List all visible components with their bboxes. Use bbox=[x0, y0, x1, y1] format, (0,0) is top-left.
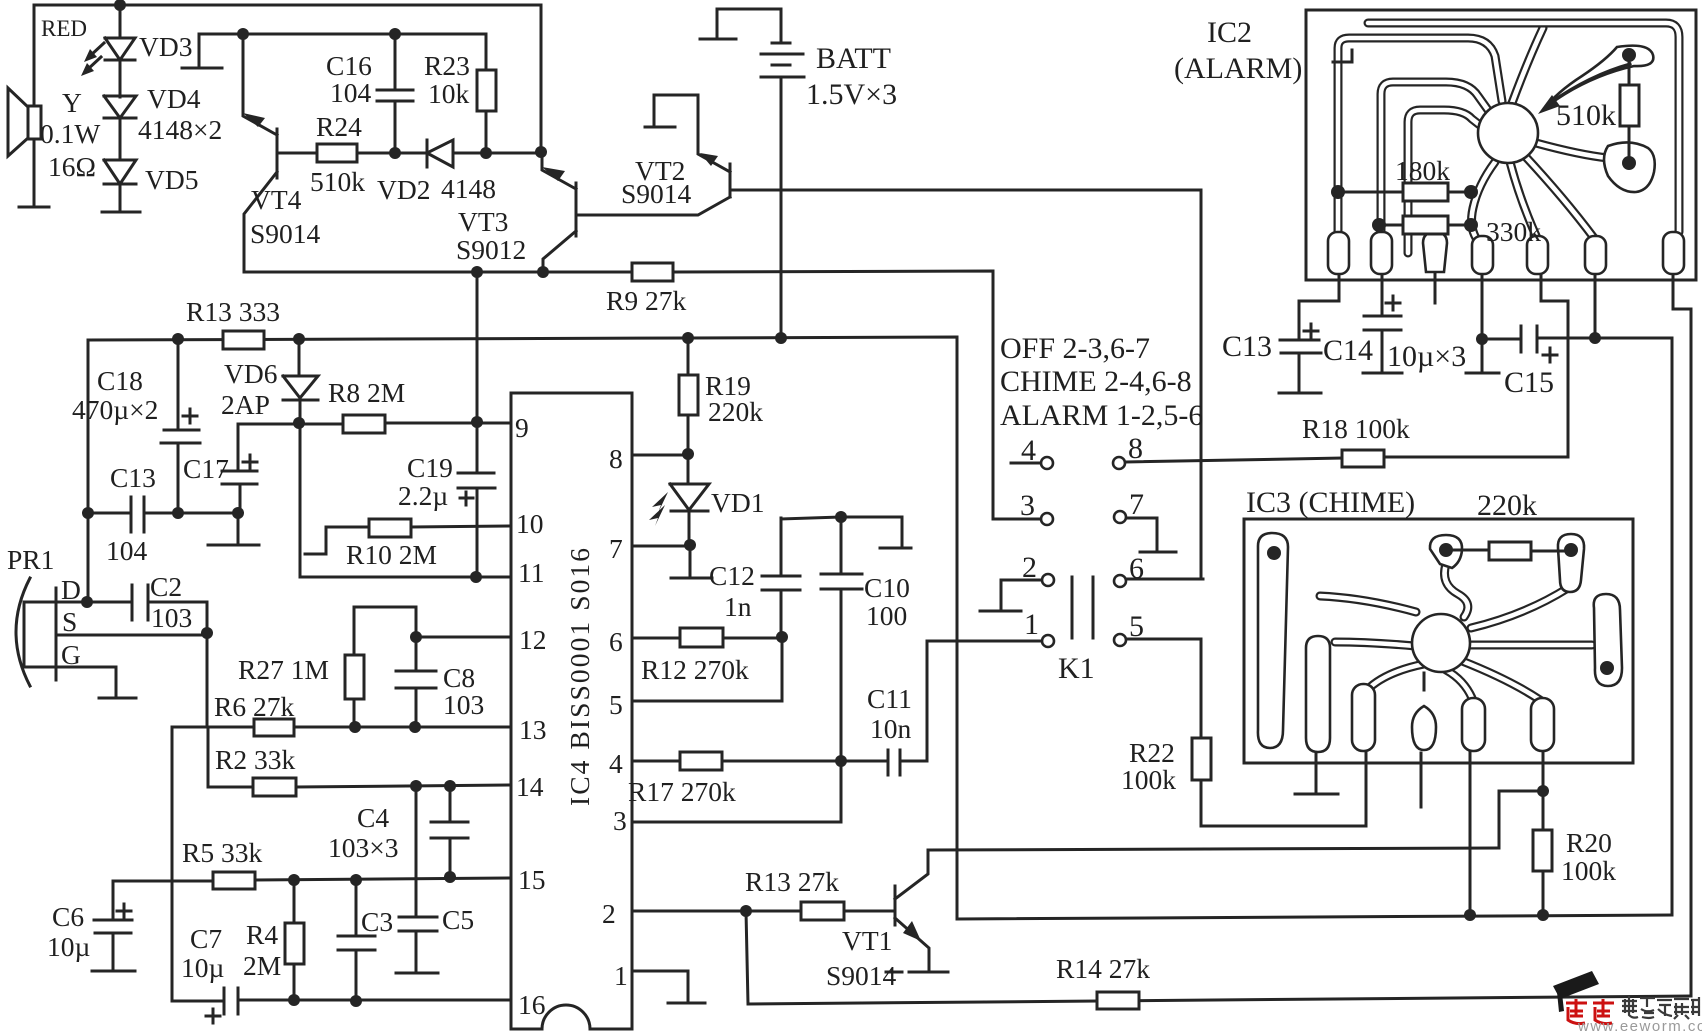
svg-text:7: 7 bbox=[609, 533, 623, 564]
svg-text:C11: C11 bbox=[867, 683, 912, 714]
IC2 box bbox=[1306, 10, 1696, 280]
node BATT bottom bbox=[775, 332, 787, 344]
svg-text:7: 7 bbox=[1129, 488, 1144, 521]
svg-text:1: 1 bbox=[614, 960, 628, 991]
wire bottom rail y1001 bbox=[1097, 996, 1691, 1001]
wire left loop x172 bbox=[171, 727, 174, 1001]
wire pin6 row bbox=[632, 637, 782, 640]
IC2 pad3 bell bbox=[1423, 232, 1447, 272]
wire pin10 row R10 bbox=[305, 526, 511, 554]
svg-text:OFF 2-3,6-7: OFF 2-3,6-7 bbox=[1000, 332, 1150, 365]
svg-text:15: 15 bbox=[518, 864, 546, 895]
svg-text:330k: 330k bbox=[1486, 216, 1541, 247]
node C3 bottom bbox=[350, 995, 362, 1007]
svg-text:2.2µ: 2.2µ bbox=[398, 480, 448, 511]
wire pin15 row bbox=[113, 878, 511, 881]
wire R23 bottom lead bbox=[485, 111, 488, 152]
IC2 bond wire sliver with arrow to chip bbox=[1543, 46, 1653, 110]
transistor VT2 S9014 bbox=[654, 95, 1201, 579]
svg-text:103×3: 103×3 bbox=[328, 832, 399, 863]
resistor R24 510k bbox=[317, 144, 357, 162]
svg-text:D: D bbox=[61, 574, 81, 605]
LED VD1 bbox=[649, 454, 709, 545]
svg-text:8: 8 bbox=[609, 443, 623, 474]
wire R18 right to IC2 pad5 bbox=[1384, 272, 1568, 457]
svg-text:4: 4 bbox=[1021, 434, 1036, 467]
contact 7 bbox=[1114, 511, 1126, 523]
svg-text:R2 33k: R2 33k bbox=[215, 744, 295, 775]
node C13 left bbox=[82, 507, 94, 519]
node C15 left bbox=[1476, 333, 1488, 345]
node pin2 bbox=[740, 905, 752, 917]
node C5 top bbox=[410, 780, 422, 792]
svg-text:R20: R20 bbox=[1566, 827, 1612, 858]
IC2 pad1 bbox=[1328, 232, 1349, 274]
svg-text:(ALARM): (ALARM) bbox=[1174, 52, 1302, 85]
stub VT1 emitter bbox=[886, 971, 948, 974]
resistor R4 2M bbox=[293, 880, 296, 1000]
svg-text:CHIME 2-4,6-8: CHIME 2-4,6-8 bbox=[1000, 365, 1192, 398]
svg-text:R24: R24 bbox=[316, 111, 362, 142]
wire IC2 pad7 to right edge vertical bbox=[1673, 272, 1691, 996]
svg-text:S9014: S9014 bbox=[250, 218, 321, 249]
IC3 box bbox=[1244, 519, 1633, 763]
wire left vertical x88 bbox=[87, 340, 90, 602]
node C17 bottom bbox=[232, 507, 244, 519]
node R4 bottom bbox=[288, 994, 300, 1006]
IC2 pad5 bbox=[1527, 236, 1548, 274]
sensor PR1 bbox=[16, 578, 207, 696]
svg-text:C12: C12 bbox=[709, 560, 755, 591]
wire IC3 pad4 lead bbox=[1469, 753, 1472, 915]
stub C10 contact bbox=[880, 547, 911, 550]
svg-text:220k: 220k bbox=[1477, 489, 1537, 522]
contact 4 bbox=[1011, 462, 1040, 465]
wire VT1 collector rail y850 bbox=[928, 848, 1499, 850]
node R8/C19 bbox=[471, 416, 483, 428]
resistor R9 27k bbox=[632, 263, 673, 281]
capacitor C11 10n bbox=[888, 641, 927, 775]
resistor R10 2M bbox=[369, 519, 411, 537]
node VD2/R23 bbox=[480, 147, 492, 159]
IC3 pad b3 onion bbox=[1423, 673, 1426, 690]
stub contact VT2 bbox=[645, 126, 675, 129]
svg-text:C19: C19 bbox=[407, 452, 453, 483]
resistor R12 270k bbox=[680, 628, 723, 647]
wire pin9 row bbox=[238, 423, 511, 424]
svg-text:VD6: VD6 bbox=[224, 358, 277, 389]
stub contact 7 bbox=[1140, 551, 1176, 554]
svg-text:1.5V×3: 1.5V×3 bbox=[806, 78, 897, 111]
IC3 trace left arc upper bbox=[1320, 596, 1416, 612]
stub C14 ground bbox=[1363, 372, 1402, 375]
svg-text:5: 5 bbox=[609, 689, 623, 720]
wire pin13 row bbox=[172, 726, 511, 729]
svg-text:3: 3 bbox=[1020, 489, 1035, 522]
contact 3 bbox=[993, 518, 1040, 521]
wire pin2 row bbox=[632, 910, 895, 913]
IC2 trace left pad2 bbox=[1381, 82, 1488, 258]
node R4 top bbox=[288, 874, 300, 886]
svg-text:C15: C15 bbox=[1504, 366, 1554, 399]
svg-text:S9014: S9014 bbox=[621, 178, 692, 209]
svg-text:10µ: 10µ bbox=[181, 952, 224, 983]
IC3 pad 220k left bbox=[1430, 535, 1462, 568]
svg-text:S9014: S9014 bbox=[826, 960, 897, 991]
svg-text:VT4: VT4 bbox=[251, 184, 302, 215]
IC3 trace left arc lower to pad b1 bbox=[1335, 642, 1415, 646]
svg-text:16Ω: 16Ω bbox=[48, 151, 96, 182]
svg-text:2AP: 2AP bbox=[221, 389, 270, 420]
contact 5 bbox=[1114, 634, 1126, 646]
wire pin2 down to bottom rail bbox=[746, 911, 1097, 1004]
IC2 pad4 bbox=[1472, 236, 1493, 274]
svg-text:510k: 510k bbox=[310, 166, 365, 197]
capacitor C19 2.2u bbox=[458, 422, 495, 577]
svg-text:10k: 10k bbox=[428, 78, 470, 109]
svg-text:PR1: PR1 bbox=[7, 544, 54, 575]
contact 6 bbox=[1114, 575, 1126, 587]
node pin4/C10/C11 bbox=[835, 755, 847, 767]
resistor R17 270k bbox=[680, 752, 722, 770]
svg-text:G: G bbox=[61, 639, 81, 670]
speaker Y 0.1W 16ohm bbox=[8, 88, 41, 156]
svg-text:4148: 4148 bbox=[441, 173, 496, 204]
IC3 pad right bbox=[1594, 594, 1622, 686]
capacitor C16 104 bbox=[377, 34, 413, 153]
svg-text:180k: 180k bbox=[1395, 155, 1450, 186]
node C3 top bbox=[350, 874, 362, 886]
resistor 220k bbox=[1453, 550, 1564, 551]
diode VD2 4148 bbox=[427, 140, 541, 167]
node C16 top bbox=[389, 28, 401, 40]
IC2 trace fan pad4 bbox=[1472, 162, 1495, 238]
svg-text:VD5: VD5 bbox=[145, 164, 198, 195]
svg-text:5: 5 bbox=[1129, 610, 1144, 643]
svg-text:C7: C7 bbox=[190, 923, 222, 954]
node IC2 pad6 bbox=[1589, 332, 1601, 344]
IC3 trace pad b4 bbox=[1446, 670, 1472, 698]
node R20 bottom bbox=[1537, 909, 1549, 921]
svg-text:104: 104 bbox=[330, 77, 372, 108]
capacitor C3 bbox=[338, 880, 375, 1001]
svg-text:R12 270k: R12 270k bbox=[641, 654, 749, 685]
node C18 top bbox=[172, 333, 184, 345]
wire IC3 pad5 jog to VT1 rail bbox=[1499, 753, 1543, 848]
LED VD3 bbox=[81, 5, 135, 97]
svg-text:12: 12 bbox=[519, 624, 547, 655]
IC3 pad 220k right bbox=[1558, 534, 1584, 592]
svg-text:16: 16 bbox=[518, 989, 546, 1020]
IC2 chip circle bbox=[1478, 103, 1538, 163]
node R12/C12 bbox=[776, 631, 788, 643]
wire pin16 row bbox=[172, 1000, 511, 1001]
svg-text:IC3 (CHIME): IC3 (CHIME) bbox=[1246, 486, 1415, 519]
IC3 pad b2 bbox=[1352, 684, 1375, 751]
capacitor C17 bbox=[222, 424, 257, 543]
svg-text:www.eeworm.com: www.eeworm.com bbox=[1577, 1018, 1702, 1033]
node VT3 collector bbox=[537, 266, 549, 278]
svg-text:C17: C17 bbox=[183, 453, 229, 484]
node VD6/R8 bbox=[293, 417, 305, 429]
wire C12/C10 top link bbox=[781, 517, 902, 546]
wire second rail y34 bbox=[199, 33, 486, 36]
wire right vertical A bbox=[1671, 338, 1674, 915]
IC3 chip circle bbox=[1412, 614, 1470, 672]
transistor VT3 S9012 bbox=[542, 152, 730, 272]
wire IC2 pad3 stub bbox=[1434, 272, 1437, 303]
node C4 top bbox=[444, 780, 456, 792]
node R19 top bbox=[682, 332, 694, 344]
svg-text:R13 27k: R13 27k bbox=[745, 866, 839, 897]
IC2 trace right edge pad7 bbox=[1368, 23, 1679, 232]
node emitter branch bbox=[471, 266, 483, 278]
svg-text:VT1: VT1 bbox=[842, 925, 892, 956]
svg-text:9: 9 bbox=[515, 412, 529, 443]
contact 2 bbox=[1042, 574, 1054, 586]
capacitor C12 1n bbox=[762, 518, 800, 637]
svg-text:K1: K1 bbox=[1058, 652, 1095, 685]
resistor R27 1M bbox=[345, 607, 416, 727]
svg-text:103: 103 bbox=[151, 602, 192, 633]
IC2 pad7 bbox=[1663, 232, 1684, 274]
IC4 BISS0001 box bbox=[511, 393, 632, 1029]
wire rail y915 bbox=[957, 915, 1672, 919]
svg-text:100k: 100k bbox=[1561, 855, 1616, 886]
IC3 pad b5 bbox=[1531, 698, 1554, 751]
svg-text:10: 10 bbox=[516, 508, 544, 539]
wire pin1 bbox=[632, 971, 688, 1001]
node D junction bbox=[81, 596, 93, 608]
IC2 (ALARM) COB module bbox=[1174, 10, 1696, 280]
svg-text:6: 6 bbox=[609, 626, 623, 657]
stub C6 ground bbox=[92, 970, 135, 973]
battery BATT 1.5Vx3 bbox=[761, 9, 804, 337]
node IC3 pad4 bottom bbox=[1464, 909, 1476, 921]
wire C13 row y513 bbox=[88, 512, 238, 515]
diode VD4 bbox=[104, 96, 136, 160]
resistor R20 100k bbox=[1542, 791, 1545, 915]
svg-text:3: 3 bbox=[613, 805, 627, 836]
stub C13 ground bbox=[1279, 392, 1321, 395]
IC3 pad left tall bbox=[1258, 533, 1288, 748]
node top rail / VD3 anode bbox=[114, 0, 126, 11]
node C8 bottom bbox=[409, 721, 421, 733]
capacitor C5 bbox=[399, 786, 437, 971]
svg-text:ALARM 1-2,5-6: ALARM 1-2,5-6 bbox=[1000, 399, 1203, 432]
svg-text:13: 13 bbox=[519, 714, 547, 745]
capacitor C6 10u bbox=[94, 881, 132, 969]
capacitor C13 right bbox=[1280, 272, 1339, 391]
IC3 trace top right teardrop tail bbox=[1471, 588, 1568, 628]
svg-text:C4: C4 bbox=[357, 802, 389, 833]
IC3 pad b4 bbox=[1462, 698, 1485, 751]
wire IC3 pad2 to R22 bbox=[1365, 753, 1368, 826]
IC2 trace fan pad5 bbox=[1510, 162, 1537, 238]
resistor 510k bbox=[1628, 55, 1631, 163]
stub pin1 ground bbox=[668, 1002, 705, 1005]
wire emitter branch x477 bbox=[476, 272, 479, 422]
IC2 pad2 bbox=[1371, 232, 1392, 274]
capacitor C4 bbox=[431, 786, 468, 877]
svg-text:R13 333: R13 333 bbox=[186, 296, 280, 327]
IC3 pad b1 tall bbox=[1306, 636, 1330, 752]
contact 1 bbox=[1042, 635, 1054, 647]
capacitor C18 470ux2 bbox=[161, 339, 200, 513]
IC3 trace pad b2 bbox=[1367, 664, 1424, 690]
svg-text:R27 1M: R27 1M bbox=[238, 654, 329, 685]
svg-text:10µ×3: 10µ×3 bbox=[1387, 340, 1466, 373]
wire pin12 row bbox=[416, 636, 511, 639]
node C4 bottom bbox=[444, 871, 456, 883]
capacitor C15 bbox=[1482, 326, 1672, 362]
capacitor C7 10u bbox=[206, 988, 238, 1023]
capacitor C13 104 bbox=[131, 497, 144, 532]
svg-text:6: 6 bbox=[1129, 552, 1144, 585]
svg-text:R9 27k: R9 27k bbox=[606, 285, 686, 316]
svg-text:2M: 2M bbox=[243, 950, 281, 981]
wire right vertical from top rail bbox=[540, 5, 543, 152]
wire pin14 row bbox=[296, 785, 511, 787]
resistor R5 33k bbox=[213, 872, 255, 889]
resistor R13 333 bbox=[223, 331, 264, 349]
svg-text:8: 8 bbox=[1128, 432, 1143, 465]
diode VD5 bbox=[104, 160, 136, 210]
svg-text:0.1W: 0.1W bbox=[40, 118, 100, 149]
svg-text:R5 33k: R5 33k bbox=[182, 837, 262, 868]
diode VD6 2AP bbox=[283, 339, 318, 423]
node pin11/C19 bbox=[470, 571, 482, 583]
IC3 trace right band bbox=[1470, 641, 1592, 650]
wire R23 top lead bbox=[485, 34, 488, 70]
node VD6 top bbox=[293, 333, 305, 345]
svg-text:C18: C18 bbox=[97, 365, 143, 396]
svg-text:104: 104 bbox=[106, 535, 148, 566]
svg-text:VD2: VD2 bbox=[377, 174, 430, 205]
svg-text:RED: RED bbox=[41, 16, 87, 41]
svg-text:S9012: S9012 bbox=[456, 234, 526, 265]
svg-text:C10: C10 bbox=[864, 572, 910, 603]
svg-text:470µ×2: 470µ×2 bbox=[72, 394, 158, 425]
resistor R19 220k bbox=[687, 338, 690, 454]
node S/C2 junction bbox=[201, 627, 213, 639]
svg-text:C3: C3 bbox=[361, 906, 393, 937]
resistor R6 27k bbox=[254, 719, 294, 736]
stub contact top-left bbox=[182, 34, 222, 68]
svg-text:220k: 220k bbox=[708, 396, 763, 427]
wire VD6 down to pin11 bbox=[300, 423, 511, 577]
svg-text:R6 27k: R6 27k bbox=[214, 691, 294, 722]
IC2 trace top right to edge bbox=[1512, 28, 1543, 103]
resistor R22 100k bbox=[1192, 738, 1211, 780]
resistor 330k bbox=[1379, 224, 1471, 227]
svg-text:C2: C2 bbox=[150, 571, 182, 602]
wire pin4 row bbox=[632, 760, 886, 763]
node R19/VD1 bbox=[682, 448, 694, 460]
svg-text:1: 1 bbox=[1024, 608, 1039, 641]
svg-text:VD4: VD4 bbox=[147, 83, 201, 114]
svg-text:510k: 510k bbox=[1556, 99, 1616, 132]
stub C17 ground bbox=[208, 544, 259, 547]
stub C5 ground bbox=[396, 972, 438, 975]
node VT4 top bbox=[237, 28, 249, 40]
IC2 trace right hook to 510k lower pad bbox=[1536, 143, 1622, 162]
svg-text:R10 2M: R10 2M bbox=[346, 539, 437, 570]
wire IC2 pad4 to C15 bbox=[1481, 272, 1484, 371]
svg-text:Y: Y bbox=[62, 87, 82, 118]
svg-text:10n: 10n bbox=[870, 713, 912, 744]
watermark logo bbox=[1553, 971, 1702, 1033]
wire pin5 row bbox=[632, 637, 782, 701]
resistor R18 100k bbox=[1342, 450, 1384, 467]
transistor VT1 S9014 bbox=[895, 850, 929, 971]
capacitor C8 103 bbox=[396, 637, 436, 727]
transistor VT4 S9014 bbox=[243, 34, 317, 272]
IC3 trace pad b5 bbox=[1462, 661, 1540, 700]
IC2 pad6 bbox=[1585, 236, 1606, 274]
wire IC3 pad3 stub bbox=[1420, 753, 1423, 807]
ground speaker bbox=[19, 206, 49, 209]
resistor 180k bbox=[1338, 191, 1471, 194]
svg-text:R18 100k: R18 100k bbox=[1302, 413, 1410, 444]
svg-text:1n: 1n bbox=[724, 591, 752, 622]
IC2 trace fan pad6 bbox=[1524, 155, 1594, 238]
wire pin3 row bbox=[632, 761, 841, 822]
svg-text:103: 103 bbox=[443, 689, 484, 720]
switch K1 link bars bbox=[1072, 577, 1093, 638]
node C18 bottom bbox=[172, 507, 184, 519]
contact 8 bbox=[1113, 457, 1125, 469]
wire bottom of block y272 bbox=[244, 271, 993, 519]
wire IC3 pad1 ground lead bbox=[1315, 753, 1318, 792]
svg-text:2: 2 bbox=[1022, 551, 1037, 584]
node R24/C16 bbox=[389, 147, 401, 159]
svg-text:11: 11 bbox=[518, 557, 544, 588]
svg-text:R8 2M: R8 2M bbox=[328, 377, 405, 408]
ground VD5 bbox=[102, 211, 140, 214]
svg-text:R14 27k: R14 27k bbox=[1056, 953, 1150, 984]
svg-text:VD3: VD3 bbox=[139, 31, 192, 62]
node C10 top bbox=[835, 511, 847, 523]
node VD1 bottom bbox=[684, 539, 696, 551]
svg-text:4: 4 bbox=[609, 748, 623, 779]
svg-text:100: 100 bbox=[866, 600, 907, 631]
svg-text:IC2: IC2 bbox=[1207, 16, 1252, 49]
svg-text:BATT: BATT bbox=[816, 42, 891, 75]
IC3 (CHIME) COB module bbox=[1244, 486, 1633, 763]
stub contact 2 bbox=[980, 610, 1021, 613]
stub VD1 ground bbox=[671, 545, 712, 578]
wire R2 left lead bbox=[208, 727, 253, 787]
wire pin8 row bbox=[632, 454, 688, 457]
svg-text:VT3: VT3 bbox=[458, 206, 508, 237]
node pin12 bbox=[410, 631, 422, 643]
svg-text:C5: C5 bbox=[442, 904, 474, 935]
svg-text:C13: C13 bbox=[1222, 330, 1272, 363]
svg-text:C13: C13 bbox=[110, 462, 156, 493]
capacitor C10 100 bbox=[821, 517, 862, 761]
wire left vertical speaker branch bbox=[33, 5, 36, 205]
wire main rail y338 bbox=[88, 337, 957, 919]
svg-text:14: 14 bbox=[516, 771, 544, 802]
capacitor C2 103 bbox=[132, 585, 148, 620]
resistor R8 2M bbox=[343, 415, 385, 433]
IC2 trace left outer pad1 with step bbox=[1338, 38, 1502, 258]
IC2 trace left inner L3 bbox=[1408, 110, 1481, 253]
svg-text:C6: C6 bbox=[52, 901, 84, 932]
resistor R23 10k bbox=[477, 70, 496, 111]
svg-text:100k: 100k bbox=[1121, 764, 1176, 795]
